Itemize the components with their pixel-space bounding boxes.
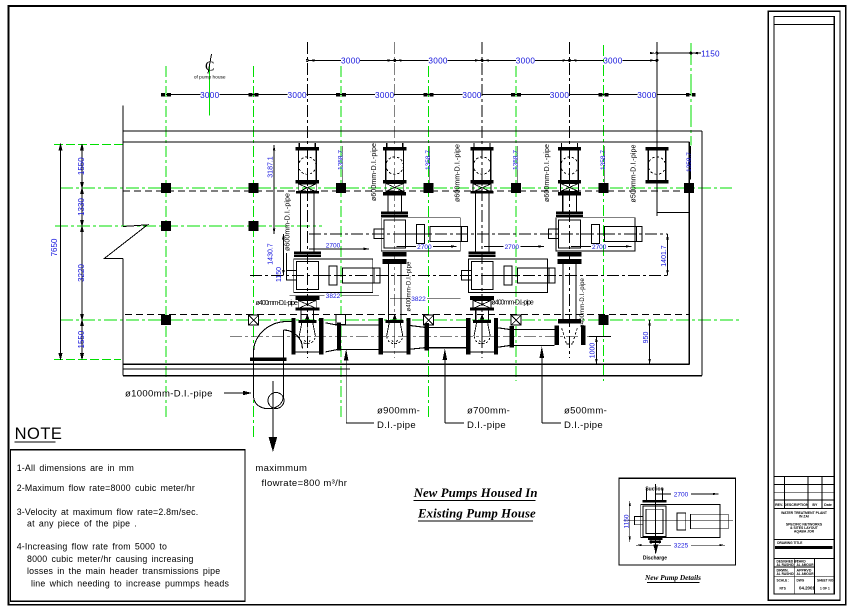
column G6-A bbox=[599, 183, 609, 193]
pipe centreline CL1 bbox=[306, 42, 308, 358]
svg-text:D.I.-pipe: D.I.-pipe bbox=[564, 420, 603, 431]
dim 1430.7 bbox=[268, 234, 285, 276]
butterfly valve V4 bbox=[558, 143, 581, 183]
svg-text:4-Increasing flow rate from 50: 4-Increasing flow rate from 5000 to bbox=[17, 542, 167, 552]
pump P4 suction joint bbox=[558, 183, 581, 195]
dim 1401.7 bbox=[661, 234, 669, 276]
svg-text:Date: Date bbox=[824, 503, 832, 507]
butterfly valve V5 (spare) bbox=[645, 147, 668, 183]
svg-text:New Pumps Housed In: New Pumps Housed In bbox=[413, 486, 538, 500]
svg-text:3-Velocity at maximum flow rat: 3-Velocity at maximum flow rate=2.8m/sec… bbox=[17, 507, 199, 517]
column G2-A bbox=[249, 183, 259, 193]
svg-text:BY: BY bbox=[812, 503, 818, 507]
svg-text:7650: 7650 bbox=[50, 238, 59, 256]
dim label 1550b bbox=[77, 330, 86, 348]
header tee T3 bbox=[466, 314, 498, 355]
svg-text:ø600mm-D.I.-pipe: ø600mm-D.I.-pipe bbox=[544, 144, 551, 202]
dim label 3000 r1a bbox=[341, 57, 361, 66]
top wall outer bbox=[123, 130, 702, 132]
dim 2700 P4 bbox=[571, 244, 631, 251]
dim 7650 line bbox=[59, 144, 62, 359]
svg-text:NOTE: NOTE bbox=[15, 425, 63, 443]
revision table bbox=[774, 476, 834, 508]
svg-text:3822: 3822 bbox=[326, 293, 341, 300]
svg-text:1550: 1550 bbox=[77, 330, 86, 348]
svg-text:DWG: DWG bbox=[797, 579, 805, 583]
svg-text:ø1000mm-D.I.-pipe: ø1000mm-D.I.-pipe bbox=[125, 389, 213, 400]
svg-text:04.2001: 04.2001 bbox=[799, 586, 815, 591]
pump P3 discharge joint bbox=[470, 300, 494, 310]
column G4-A bbox=[424, 183, 434, 193]
svg-text:2700: 2700 bbox=[505, 244, 520, 251]
grid row C (y=320) bbox=[60, 319, 740, 321]
dim label 7650 bbox=[50, 238, 59, 256]
riser pipe left line bbox=[253, 352, 255, 398]
grid row B (y=226) bbox=[55, 225, 322, 227]
detail pump centrelines bbox=[623, 484, 733, 553]
svg-text:REV.: REV. bbox=[775, 503, 783, 507]
detail dim 3225 bbox=[636, 543, 725, 550]
detail pump casing bbox=[643, 506, 666, 536]
dim label 1150 bbox=[701, 49, 720, 58]
title block top band bbox=[774, 24, 834, 26]
pump P1 discharge pipe bbox=[301, 310, 314, 320]
svg-text:3000: 3000 bbox=[516, 57, 536, 66]
pump centreline lower row bbox=[250, 274, 668, 276]
svg-text:losses in the main header tran: losses in the main header transmissions … bbox=[27, 566, 220, 576]
dim 3822 P2 bbox=[390, 296, 461, 303]
svg-text:New Pump Details: New Pump Details bbox=[644, 573, 701, 582]
pump P3 suction flanges bbox=[469, 252, 496, 257]
label pipe P4 600 bbox=[544, 144, 551, 202]
inlet elbow outer arc bbox=[254, 322, 293, 353]
note 4 bbox=[17, 542, 230, 589]
header segment 700 bbox=[429, 327, 467, 347]
detail coupling bbox=[677, 513, 686, 530]
pump P2 body bbox=[374, 218, 468, 251]
detail motor bbox=[691, 514, 729, 529]
grid line G4 bbox=[428, 66, 430, 420]
crossed sleeve G4-C bbox=[424, 315, 434, 325]
green extension line y=144 bbox=[54, 143, 123, 145]
right wall outer bbox=[701, 131, 703, 376]
svg-text:3000: 3000 bbox=[637, 91, 657, 100]
header segment keel (tee1 bottom span) bbox=[292, 351, 297, 353]
svg-text:1 OF 1: 1 OF 1 bbox=[820, 587, 830, 591]
svg-text:SHEET NO :: SHEET NO : bbox=[817, 579, 835, 583]
dim 2700 P2 bbox=[396, 244, 456, 251]
svg-text:AL AMOUR: AL AMOUR bbox=[797, 572, 815, 576]
grid line G6 bbox=[603, 45, 605, 381]
svg-text:IN ZAI: IN ZAI bbox=[799, 515, 809, 519]
dim row1 line bbox=[306, 59, 658, 61]
spare-valve niche partition bbox=[657, 212, 689, 214]
pump P4 body bbox=[549, 218, 643, 251]
svg-text:SCALE :: SCALE : bbox=[777, 579, 790, 583]
svg-text:maximmum: maximmum bbox=[255, 463, 307, 474]
note 2 bbox=[17, 483, 195, 493]
pump P1 suction joint bbox=[296, 184, 319, 194]
dim label 3000 r2b bbox=[287, 91, 307, 100]
svg-text:1150: 1150 bbox=[624, 514, 631, 528]
svg-text:ø500mm-D.I.-pipe: ø500mm-D.I.-pipe bbox=[631, 144, 638, 202]
green extension line y=359 bbox=[54, 358, 121, 360]
svg-text:3225: 3225 bbox=[674, 543, 689, 550]
grid line G5 bbox=[515, 66, 517, 381]
label pipe P3 600 bbox=[455, 144, 462, 202]
header flange at G3 bbox=[337, 323, 341, 351]
dim 1358.7 G6 bbox=[600, 146, 607, 183]
bottom wall inner bbox=[123, 363, 689, 365]
header segment 500 bbox=[514, 330, 554, 346]
pump house centreline (green) bbox=[209, 66, 211, 116]
pump P2 suction flanges bbox=[381, 211, 408, 216]
riser loop circle bbox=[268, 393, 284, 409]
wall break symbol bbox=[104, 225, 147, 259]
svg-text:2700: 2700 bbox=[417, 244, 432, 251]
dim 1150 pump1 bbox=[276, 253, 287, 282]
header tee T2 bbox=[379, 314, 411, 355]
inlet elbow inner arc bbox=[283, 330, 302, 348]
svg-text:1358.7: 1358.7 bbox=[425, 150, 432, 170]
svg-text:3000: 3000 bbox=[428, 57, 448, 66]
svg-text:AL AMOUR: AL AMOUR bbox=[797, 563, 815, 567]
svg-text:ø500mm-: ø500mm- bbox=[564, 406, 607, 417]
svg-text:ø400mm-D.I.-pipe: ø400mm-D.I.-pipe bbox=[580, 277, 586, 328]
pump P4 suction pipe bbox=[563, 196, 577, 212]
column G1-C bbox=[161, 315, 171, 325]
pipe centreline CL5 (solid) bbox=[656, 42, 658, 216]
pump centreline upper row bbox=[309, 233, 668, 235]
label pipe P2 400 bbox=[407, 261, 413, 312]
crossed sleeve G5-C bbox=[511, 315, 521, 325]
column G1-A bbox=[161, 183, 171, 193]
label pipe P1 400 bbox=[256, 300, 299, 307]
dim 2700 P1 bbox=[309, 242, 369, 250]
dim label 1550a bbox=[77, 157, 86, 175]
svg-text:D.I.-pipe: D.I.-pipe bbox=[467, 420, 506, 431]
NOTE heading bbox=[15, 425, 63, 443]
centreline symbol bbox=[194, 54, 226, 81]
svg-text:AL RASHID: AL RASHID bbox=[777, 563, 795, 567]
dim label 3000 r1d bbox=[603, 57, 623, 66]
svg-text:ø600mm-D.I.-pipe: ø600mm-D.I.-pipe bbox=[285, 193, 292, 251]
detail bottom nozzle bbox=[648, 537, 663, 555]
pump P1 suction flanges bbox=[294, 252, 321, 257]
project name block bbox=[781, 511, 828, 534]
dim 3822 P1 bbox=[290, 293, 379, 300]
detail dim 2700 bbox=[656, 492, 719, 499]
pipe centreline CL3 bbox=[481, 42, 483, 358]
new pump details box bbox=[619, 478, 736, 565]
dim 1358.7 G5 bbox=[513, 146, 520, 183]
pump P3 discharge pipe bbox=[476, 310, 489, 320]
pump P1 discharge joint bbox=[295, 300, 319, 310]
svg-text:1358.7: 1358.7 bbox=[686, 152, 693, 172]
header centreline bbox=[230, 336, 589, 338]
hidden line y=191 bbox=[123, 190, 689, 192]
svg-text:3000: 3000 bbox=[200, 91, 220, 100]
pump P3 body bbox=[461, 259, 554, 292]
column G6-C bbox=[599, 315, 609, 325]
svg-text:3000: 3000 bbox=[550, 91, 570, 100]
detail top nozzle bbox=[643, 489, 667, 503]
header reducer 1000x900 bbox=[325, 323, 337, 352]
riser U-bend bbox=[254, 396, 284, 409]
svg-text:at any piece of the pipe .: at any piece of the pipe . bbox=[27, 519, 137, 529]
svg-text:1358.7: 1358.7 bbox=[338, 150, 345, 170]
bottom wall outer bbox=[123, 375, 702, 377]
crossed sleeve G2-C bbox=[249, 315, 259, 325]
svg-text:1401.7: 1401.7 bbox=[661, 245, 668, 267]
svg-text:950: 950 bbox=[643, 332, 650, 344]
leader 1000 pipe bbox=[125, 389, 252, 400]
header flange at G5 bbox=[510, 326, 514, 347]
dim 1358.7 G4 bbox=[425, 146, 432, 183]
svg-text:of pump house: of pump house bbox=[194, 75, 226, 81]
svg-text:ø700mm-: ø700mm- bbox=[467, 406, 510, 417]
column G5-A bbox=[511, 183, 521, 193]
dim 1150 line bbox=[650, 52, 701, 54]
svg-text:ø900mm-: ø900mm- bbox=[377, 406, 420, 417]
column G2-B bbox=[249, 221, 259, 231]
svg-text:3822: 3822 bbox=[411, 296, 426, 303]
detail dim 1150 bbox=[624, 501, 631, 542]
svg-text:1-All dimensions are in mm: 1-All dimensions are in mm bbox=[17, 463, 134, 473]
svg-text:DRAWING TITLE: DRAWING TITLE bbox=[777, 541, 802, 545]
details caption bbox=[644, 573, 701, 582]
title block outer frame bbox=[768, 11, 840, 600]
svg-text:NTS: NTS bbox=[780, 587, 786, 591]
leader 900 pipe bbox=[344, 349, 420, 431]
pump P2 discharge pipe bbox=[388, 264, 401, 320]
note 1 bbox=[17, 463, 134, 473]
header flange at G4 bbox=[424, 323, 429, 351]
pump P4 suction flanges bbox=[556, 211, 583, 216]
svg-text:1430.7: 1430.7 bbox=[268, 243, 275, 265]
grid row A (y=188) bbox=[60, 187, 732, 189]
svg-text:1330: 1330 bbox=[77, 198, 86, 216]
label pipe P2 600 bbox=[371, 143, 378, 201]
pump P1 discharge flange bbox=[295, 296, 319, 300]
svg-text:3000: 3000 bbox=[603, 57, 623, 66]
pump P2 suction pipe bbox=[388, 196, 402, 212]
dim row2 line bbox=[162, 93, 696, 96]
svg-text:Suction: Suction bbox=[645, 487, 663, 493]
grid line G2 bbox=[253, 66, 255, 438]
svg-text:ø600mm-D.I.-pipe: ø600mm-D.I.-pipe bbox=[371, 143, 378, 201]
signature cells bbox=[774, 559, 834, 594]
dim label 3000 r1b bbox=[428, 57, 448, 66]
left wall upper bbox=[122, 105, 124, 225]
header tee T4 bbox=[554, 319, 585, 345]
pipe centreline CL4 bbox=[569, 42, 571, 358]
svg-text:3000: 3000 bbox=[287, 91, 307, 100]
pump P3 discharge flange bbox=[470, 296, 494, 300]
pump P4 discharge flanges bbox=[558, 252, 582, 264]
note 3 bbox=[17, 507, 199, 528]
header reducer 700x500 bbox=[495, 327, 510, 347]
drawing title line 2 bbox=[417, 507, 536, 521]
svg-text:3000: 3000 bbox=[462, 91, 482, 100]
header segment 900 bbox=[341, 325, 379, 350]
left wall lower bbox=[122, 258, 124, 375]
notes box bbox=[10, 450, 245, 602]
svg-text:8000 cubic meter/hr causing in: 8000 cubic meter/hr causing increasing bbox=[27, 554, 194, 564]
dim label 3220 bbox=[77, 264, 86, 282]
dim label 3000 r2f bbox=[637, 91, 657, 100]
top wall inner bbox=[123, 141, 690, 143]
header tee T1 bbox=[291, 314, 323, 355]
butterfly valve V3 bbox=[471, 143, 494, 183]
title block inner frame bbox=[774, 16, 834, 594]
svg-text:ø400mm-D.I.-pipe: ø400mm-D.I.-pipe bbox=[491, 300, 534, 307]
svg-text:flowrate=800 m³/hr: flowrate=800 m³/hr bbox=[262, 478, 348, 489]
revision header labels bbox=[775, 503, 832, 507]
column G1-B bbox=[161, 221, 171, 231]
butterfly valve V1 bbox=[296, 143, 319, 183]
pump P4 discharge pipe bbox=[563, 264, 576, 320]
pump P3 suction pipe bbox=[475, 194, 489, 252]
butterfly valve V2 bbox=[383, 143, 406, 183]
detail suction label bbox=[645, 487, 663, 493]
dim 950 bbox=[643, 320, 651, 364]
svg-text:ø400mm-D.I.-pipe: ø400mm-D.I.-pipe bbox=[407, 261, 413, 312]
flowrate text bbox=[255, 463, 347, 489]
pump P1 body bbox=[287, 259, 381, 292]
svg-text:1000: 1000 bbox=[590, 343, 597, 359]
dim label 3000 r2e bbox=[550, 91, 570, 100]
header reducer 900x700 bbox=[407, 325, 424, 350]
bottom wall mid line bbox=[123, 368, 350, 370]
svg-text:1358.7: 1358.7 bbox=[513, 150, 520, 170]
right wall inner bbox=[688, 142, 690, 364]
svg-text:3187.1: 3187.1 bbox=[267, 156, 274, 178]
dim 3187.1 bbox=[267, 145, 275, 234]
svg-text:Discharge: Discharge bbox=[643, 555, 667, 561]
svg-text:3000: 3000 bbox=[375, 91, 395, 100]
riser floor flange bbox=[250, 358, 287, 362]
pipe centreline CL2 bbox=[394, 42, 396, 358]
label pipe P4 400 bbox=[580, 277, 586, 328]
svg-text:1150: 1150 bbox=[276, 267, 283, 282]
svg-text:AL RASHID: AL RASHID bbox=[777, 572, 795, 576]
open sleeve G3-C bbox=[336, 315, 346, 325]
label pipe P1 600 bbox=[285, 193, 292, 251]
pump P2 suction joint bbox=[383, 183, 406, 195]
dim 1358.7 G3 bbox=[338, 146, 345, 183]
grid line G1 bbox=[165, 66, 167, 418]
detail baseplate bbox=[641, 505, 720, 538]
column G7-A bbox=[684, 183, 694, 193]
svg-text:2700: 2700 bbox=[592, 244, 607, 251]
svg-text:2-Maximum flow rate=8000 cubic: 2-Maximum flow rate=8000 cubic meter/hr bbox=[17, 483, 195, 493]
svg-text:2700: 2700 bbox=[326, 242, 341, 249]
dim label 3000 r1c bbox=[516, 57, 536, 66]
svg-text:Existing Pump House: Existing Pump House bbox=[417, 507, 536, 521]
grid line G7 bbox=[690, 43, 692, 146]
pump P2 discharge flanges bbox=[383, 252, 407, 264]
svg-text:1358.7: 1358.7 bbox=[600, 150, 607, 170]
detail suction stub bbox=[635, 517, 644, 525]
svg-text:1550: 1550 bbox=[77, 157, 86, 175]
svg-text:2700: 2700 bbox=[674, 492, 689, 499]
dim chain line bbox=[81, 144, 84, 359]
riser pipe right line bbox=[282, 330, 284, 398]
dim 1000 bbox=[589, 337, 611, 365]
label pipe P3 400 bbox=[491, 300, 534, 307]
drawing title line 1 bbox=[413, 486, 538, 500]
dim 2700 P3 bbox=[484, 244, 544, 251]
dim label 3000 r2a bbox=[200, 91, 220, 100]
svg-text:3000: 3000 bbox=[341, 57, 361, 66]
column G3-A bbox=[336, 183, 346, 193]
svg-text:ø600mm-D.I.-pipe: ø600mm-D.I.-pipe bbox=[455, 144, 462, 202]
leader 700 pipe bbox=[443, 349, 511, 432]
label pipe P5 500 bbox=[631, 144, 638, 202]
svg-text:line which needing to increase: line which needing to increase pummps he… bbox=[31, 578, 229, 588]
drawing title cell bbox=[774, 539, 834, 558]
pump P3 suction joint bbox=[471, 184, 494, 194]
svg-text:ø400mm-D.I.-pipe: ø400mm-D.I.-pipe bbox=[256, 300, 299, 307]
svg-text:AQABA JOR: AQABA JOR bbox=[794, 530, 815, 534]
svg-text:D.I.-pipe: D.I.-pipe bbox=[377, 420, 416, 431]
dim label 3000 r2c bbox=[375, 91, 395, 100]
dim label 3000 r2d bbox=[462, 91, 482, 100]
grid line G3 bbox=[340, 66, 342, 417]
svg-text:1150: 1150 bbox=[701, 49, 720, 58]
svg-text:3220: 3220 bbox=[77, 264, 86, 282]
leader 500 pipe bbox=[540, 346, 608, 431]
hidden line y=314.6 bbox=[125, 314, 689, 316]
dim label 1330 bbox=[77, 198, 86, 216]
pump P1 suction pipe bbox=[301, 194, 315, 252]
detail discharge label bbox=[643, 555, 667, 561]
svg-text:DESCRIPTION: DESCRIPTION bbox=[784, 503, 809, 507]
flow arrow down bbox=[269, 381, 278, 452]
dim 1358.7 G7 bbox=[686, 146, 693, 180]
